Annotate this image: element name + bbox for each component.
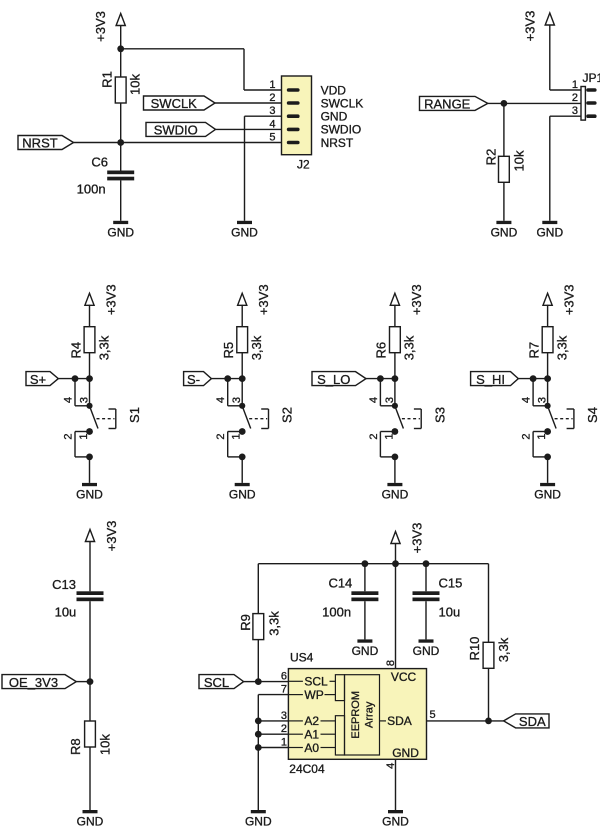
svg-text:+3V3: +3V3: [93, 11, 108, 42]
resistor R1: [100, 71, 143, 103]
resistor R7: [526, 327, 569, 361]
svg-text:S+: S+: [30, 372, 46, 387]
ground under R2: [491, 221, 518, 240]
svg-text:1: 1: [78, 433, 90, 439]
wire S+ flag to node: [58, 378, 89, 380]
resistor R10: [467, 637, 511, 669]
wire S3 to ground: [394, 457, 396, 483]
svg-text:5: 5: [269, 132, 275, 144]
node S_HI left junction: [530, 375, 537, 382]
node rail/C15: [423, 560, 430, 567]
wire A2 to US4 pin3: [258, 720, 288, 722]
svg-text:R8: R8: [68, 738, 83, 755]
svg-text:+3V3: +3V3: [256, 284, 271, 315]
svg-text:J2: J2: [297, 158, 310, 172]
svg-text:3,3k: 3,3k: [496, 637, 511, 662]
svg-text:+3V3: +3V3: [562, 284, 577, 315]
svg-text:4: 4: [269, 118, 275, 130]
node S_LO left junction: [377, 375, 384, 382]
wire R8 to ground: [89, 747, 91, 810]
svg-text:SWCLK: SWCLK: [321, 96, 364, 110]
wire +3V3 to junction: [120, 25, 122, 49]
node rail/C14: [362, 560, 369, 567]
svg-text:SWCLK: SWCLK: [151, 96, 198, 111]
node OE_3V3 junction: [87, 678, 94, 685]
svg-text:SWDIO: SWDIO: [321, 123, 362, 137]
net label S_LO: [312, 372, 366, 387]
ground under C14: [352, 639, 379, 658]
svg-text:GND: GND: [352, 644, 379, 658]
svg-text:C15: C15: [439, 576, 463, 591]
svg-text:10k: 10k: [512, 150, 527, 171]
wire rail to R9: [257, 564, 259, 614]
switch S2: [239, 403, 295, 435]
svg-text:5: 5: [430, 709, 436, 721]
power +3V3 row2 col S4: [543, 284, 577, 315]
ground under C6: [107, 221, 134, 240]
svg-text:2: 2: [269, 92, 275, 104]
wire +3V3 to R7: [547, 305, 549, 327]
svg-text:3: 3: [79, 397, 91, 403]
svg-text:4: 4: [368, 397, 380, 403]
switch S2 pins 4/3: [215, 379, 243, 406]
wire R7 to S_HI node: [547, 353, 549, 379]
wire +3V3 to R5: [241, 305, 243, 327]
svg-text:2: 2: [215, 433, 227, 439]
svg-text:GND: GND: [321, 110, 348, 124]
switch S3 pins 2/1: [368, 428, 398, 460]
ground under US4: [382, 810, 409, 828]
wire S_LO flag to node: [366, 378, 395, 380]
wire R1 to NRST node: [120, 103, 122, 143]
svg-text:2: 2: [281, 723, 287, 735]
wire SWCLK to J2 pin2: [215, 102, 282, 104]
switch S3: [392, 403, 448, 435]
svg-text:RANGE: RANGE: [424, 97, 471, 112]
svg-text:+3V3: +3V3: [409, 284, 424, 315]
power +3V3 row2 col S1: [85, 284, 119, 315]
svg-text:GND: GND: [536, 225, 563, 239]
node S- left junction: [224, 375, 231, 382]
wire into J2 pin1: [244, 89, 282, 91]
wire top rail to J2 pin1 (vertical): [243, 49, 245, 90]
svg-text:3: 3: [281, 710, 287, 722]
svg-text:2: 2: [368, 433, 380, 439]
wire VCC pin 8: [395, 564, 397, 669]
net label RANGE: [420, 96, 488, 111]
wire R6 to S_LO node: [394, 353, 396, 379]
svg-text:100n: 100n: [322, 604, 351, 619]
svg-text:GND: GND: [382, 815, 409, 828]
switch S4: [545, 403, 600, 435]
svg-text:R7: R7: [526, 342, 541, 359]
wire R9 to SCL node: [257, 640, 259, 682]
node NRST junction: [117, 139, 124, 146]
ground under C15: [413, 639, 440, 658]
svg-text:4: 4: [63, 397, 75, 403]
svg-text:C13: C13: [52, 577, 76, 592]
resistor R9: [238, 611, 282, 640]
svg-text:1: 1: [269, 79, 275, 91]
svg-text:+3V3: +3V3: [104, 521, 119, 552]
svg-text:EEPROM: EEPROM: [350, 691, 362, 739]
net label SWDIO: [146, 122, 216, 137]
IC US4 24C04 EEPROM: [281, 651, 427, 777]
capacitor C6: [77, 155, 135, 197]
svg-text:R10: R10: [467, 637, 482, 661]
svg-text:GND: GND: [382, 487, 409, 501]
svg-text:R4: R4: [68, 342, 83, 359]
wire WP/address to ground (vertical): [257, 695, 259, 810]
svg-text:NRST: NRST: [22, 136, 57, 151]
svg-text:3,3k: 3,3k: [267, 611, 282, 636]
wire R2 to ground: [503, 182, 505, 221]
wire JP1 pin3 (horizontal): [550, 115, 581, 117]
svg-text:OE_3V3: OE_3V3: [9, 675, 58, 690]
svg-text:A2: A2: [304, 714, 319, 728]
wire +3V3 to JP1 pin1 (vertical): [549, 25, 551, 91]
svg-text:NRST: NRST: [321, 136, 354, 150]
svg-text:SDA: SDA: [519, 714, 546, 729]
power +3V3 bottom-right: [391, 523, 425, 554]
wire A0 to US4 pin1: [258, 747, 288, 749]
wire S- flag to node: [211, 378, 242, 380]
node +3V3/R1/VDD junction: [117, 45, 124, 52]
wire +3V3 arrow to rail: [395, 543, 397, 564]
svg-text:GND: GND: [77, 815, 104, 828]
wire SWDIO to J2 pin4: [216, 128, 282, 130]
wire J2 pin3 to ground (horizontal): [245, 115, 282, 117]
svg-text:GND: GND: [107, 225, 134, 239]
svg-text:S_HI: S_HI: [476, 372, 505, 387]
switch S1 pins 4/3: [63, 379, 91, 406]
node S_LO right junction: [392, 375, 399, 382]
ground under S4: [534, 483, 561, 502]
wire NRST to J2 pin5: [74, 142, 282, 144]
svg-text:3: 3: [537, 397, 549, 403]
svg-text:1: 1: [572, 79, 578, 91]
capacitor C13: [52, 577, 103, 620]
svg-text:8: 8: [385, 660, 397, 666]
svg-text:S3: S3: [432, 407, 447, 423]
net label SCL: [199, 675, 244, 690]
ground under R8: [77, 810, 104, 828]
svg-text:SDA: SDA: [387, 714, 412, 728]
wire R5 to S- node: [241, 353, 243, 379]
svg-text:10u: 10u: [55, 605, 77, 620]
svg-text:3,3k: 3,3k: [402, 335, 417, 360]
wire junction to R1: [120, 49, 122, 77]
svg-text:S4: S4: [585, 407, 600, 423]
wire R10 to SDA node: [488, 668, 490, 721]
node A0 junction: [255, 744, 262, 751]
node SCL/R9 junction: [255, 678, 262, 685]
wire A1 to US4 pin2: [258, 733, 288, 735]
ground under S1: [76, 483, 103, 502]
svg-text:1: 1: [536, 433, 548, 439]
ground under JP1: [536, 221, 563, 240]
svg-text:10u: 10u: [439, 604, 461, 619]
svg-text:GND: GND: [413, 644, 440, 658]
svg-text:SCL: SCL: [304, 675, 328, 689]
svg-text:A1: A1: [304, 728, 319, 742]
svg-text:2: 2: [63, 433, 75, 439]
switch S3 pins 4/3: [368, 379, 396, 406]
svg-text:GND: GND: [245, 815, 272, 828]
switch S4 pins 4/3: [521, 379, 549, 406]
node S- right junction: [239, 375, 246, 382]
net label SWCLK: [144, 96, 216, 111]
resistor R4: [68, 327, 111, 361]
svg-text:US4: US4: [290, 651, 314, 665]
resistor R5: [221, 327, 264, 361]
svg-text:24C04: 24C04: [289, 762, 325, 776]
net label S_HI: [471, 372, 519, 387]
wire S1 to ground: [89, 457, 91, 483]
wire NRST node to C6: [120, 143, 122, 171]
svg-text:1: 1: [231, 433, 243, 439]
wire rail to C15: [425, 564, 427, 592]
resistor R6: [374, 327, 417, 361]
resistor R8: [68, 721, 113, 755]
wire +3V3 to R6: [394, 305, 396, 327]
svg-text:R1: R1: [100, 71, 115, 88]
svg-text:3,3k: 3,3k: [96, 335, 111, 360]
wire R4 to S+ node: [89, 353, 91, 379]
wire C15 to ground: [425, 601, 427, 639]
svg-text:GND: GND: [76, 487, 103, 501]
svg-text:JP1: JP1: [583, 71, 600, 85]
net label S+: [26, 372, 58, 387]
svg-text:VDD: VDD: [321, 83, 347, 97]
svg-text:3,3k: 3,3k: [554, 335, 569, 360]
switch S4 pins 2/1: [521, 428, 551, 460]
wire SDA pin5: [427, 720, 504, 722]
net label S-: [184, 372, 212, 387]
svg-text:A0: A0: [304, 741, 319, 755]
svg-text:1: 1: [383, 433, 395, 439]
wire +3V3 to C13: [89, 541, 91, 591]
svg-text:4: 4: [385, 763, 397, 769]
svg-text:7: 7: [281, 684, 287, 696]
wire +3V3 to JP1 pin1 (horizontal): [550, 89, 581, 91]
node S+ left junction: [72, 375, 79, 382]
pin number 5: [430, 709, 436, 721]
ground under S2: [229, 483, 256, 502]
switch S1: [86, 403, 142, 435]
connector J2: [269, 76, 363, 172]
node rail/VCC: [392, 560, 399, 567]
svg-text:3,3k: 3,3k: [249, 335, 264, 360]
wire +3V3 rail: [258, 563, 488, 565]
svg-text:R5: R5: [221, 342, 236, 359]
wire node to R8: [89, 682, 91, 721]
wire rail to R10: [488, 564, 490, 643]
svg-text:S1: S1: [127, 407, 142, 423]
net label SDA: [504, 714, 549, 729]
wire J2 pin3 to ground (vertical): [244, 116, 246, 221]
node A1 junction: [255, 731, 262, 738]
svg-text:10k: 10k: [98, 734, 113, 755]
pin number 4: [385, 763, 397, 769]
node SDA/R10 junction: [485, 718, 492, 725]
net label NRST: [18, 136, 74, 151]
net label OE_3V3: [2, 675, 76, 690]
capacitor C14: [322, 576, 378, 620]
switch S1 pins 2/1: [63, 428, 93, 460]
wire S4 to ground: [547, 457, 549, 483]
wire rail to C14: [364, 564, 366, 592]
wire S_HI flag to node: [518, 378, 547, 380]
ground under address pins: [245, 810, 272, 828]
wire C13 to OE node: [89, 601, 91, 681]
svg-text:10k: 10k: [128, 74, 143, 95]
power +3V3 top-right: [522, 11, 554, 42]
svg-text:3: 3: [269, 105, 275, 117]
svg-text:4: 4: [215, 397, 227, 403]
ground under S3: [382, 483, 409, 502]
svg-text:+3V3: +3V3: [410, 523, 425, 554]
wire SCL to US4 pin6: [258, 681, 288, 683]
svg-text:S-: S-: [187, 372, 200, 387]
power +3V3 bottom-left: [85, 521, 119, 552]
node S+ right junction: [86, 375, 93, 382]
svg-text:2: 2: [572, 92, 578, 104]
wire GND pin 4: [395, 759, 397, 810]
svg-text:R6: R6: [374, 342, 389, 359]
svg-text:1: 1: [281, 737, 287, 749]
svg-text:R2: R2: [484, 149, 499, 166]
svg-text:S_LO: S_LO: [317, 372, 350, 387]
svg-text:Array: Array: [364, 701, 376, 728]
node S_HI right junction: [544, 375, 551, 382]
node RANGE/R2 junction: [501, 100, 508, 107]
wire OE_3V3 flag to node: [76, 681, 90, 683]
connector JP1: [572, 71, 600, 120]
svg-text:GND: GND: [392, 746, 419, 760]
power +3V3 row2 col S3: [390, 284, 424, 315]
svg-text:6: 6: [281, 670, 287, 682]
switch S2 pins 2/1: [215, 428, 245, 460]
svg-text:R9: R9: [238, 614, 253, 631]
wire junction to R2: [503, 103, 505, 156]
node A2 junction: [255, 718, 262, 725]
wire C6 to ground: [120, 180, 122, 220]
svg-text:SWDIO: SWDIO: [154, 123, 198, 138]
wire top rail to J2 pin1 (horizontal): [121, 48, 244, 50]
wire +3V3 to R4: [89, 305, 91, 327]
svg-text:SCL: SCL: [204, 675, 229, 690]
wire C14 to ground: [364, 601, 366, 639]
svg-text:+3V3: +3V3: [522, 11, 537, 42]
svg-text:3: 3: [572, 105, 578, 117]
capacitor C15: [413, 576, 463, 620]
svg-text:100n: 100n: [77, 182, 106, 197]
svg-text:4: 4: [521, 397, 533, 403]
svg-text:GND: GND: [231, 225, 258, 239]
svg-text:S2: S2: [280, 407, 295, 423]
wire SCL flag to node: [244, 681, 259, 683]
power +3V3 row2 col S2: [238, 284, 272, 315]
svg-text:VCC: VCC: [391, 670, 417, 684]
svg-text:C6: C6: [91, 155, 108, 170]
wire RANGE to JP1 pin2: [488, 102, 581, 104]
power +3V3 top-left: [93, 11, 125, 42]
resistor R2: [484, 149, 527, 183]
wire WP pin7 (horizontal): [258, 694, 288, 696]
svg-text:GND: GND: [534, 487, 561, 501]
wire JP1 pin3 to ground (vertical): [549, 116, 551, 221]
svg-text:GND: GND: [229, 487, 256, 501]
ground under J2 pin3: [231, 221, 258, 240]
svg-text:2: 2: [521, 433, 533, 439]
svg-text:+3V3: +3V3: [104, 284, 119, 315]
svg-text:C14: C14: [328, 576, 352, 591]
svg-text:GND: GND: [491, 225, 518, 239]
svg-text:3: 3: [384, 397, 396, 403]
svg-text:3: 3: [231, 397, 243, 403]
wire S2 to ground: [241, 457, 243, 483]
svg-text:WP: WP: [304, 688, 323, 702]
pin number 8: [385, 660, 397, 666]
